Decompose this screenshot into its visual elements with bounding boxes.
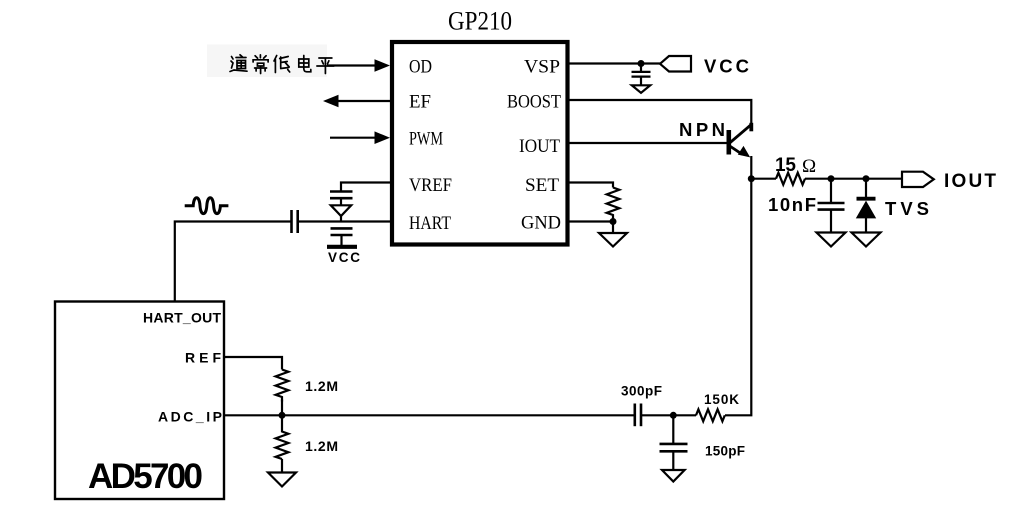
resistor R4 1.2M xyxy=(276,415,289,459)
svg-text:HART: HART xyxy=(409,213,451,234)
junction node R2/GND xyxy=(610,218,617,225)
label 1.2M (R4) xyxy=(305,438,338,454)
label TVS xyxy=(885,198,929,219)
junction node C2 xyxy=(828,175,835,182)
junction node ADC_IP xyxy=(279,412,286,419)
svg-text:EF: EF xyxy=(409,92,431,113)
svg-text:15: 15 xyxy=(775,155,796,176)
arrowhead out of EF xyxy=(323,95,339,108)
capacitor C4 (HART coupling) xyxy=(292,210,298,233)
wire PWM input xyxy=(330,137,376,139)
wire R5 up to emitter node xyxy=(725,179,751,416)
junction node VSP/C1 xyxy=(638,60,645,67)
wire IOUT pin to base xyxy=(567,142,728,144)
label Omega xyxy=(802,156,816,177)
wire EF output xyxy=(337,100,390,102)
wire GND pin xyxy=(567,220,613,222)
wire ADC_IP line xyxy=(224,414,635,416)
svg-text:VCC: VCC xyxy=(328,250,360,265)
wire VSP to VCC xyxy=(567,62,660,64)
wire HART line xyxy=(298,220,392,222)
label 300pF xyxy=(621,384,662,399)
resistor R1 15 ohm xyxy=(776,173,805,185)
wire R3 to ADC_IP node xyxy=(281,400,283,416)
wire R4 to ground xyxy=(281,459,283,473)
label 150K xyxy=(704,392,739,407)
ground (TVS) xyxy=(852,233,881,247)
wire C4 to HART_OUT xyxy=(175,222,292,302)
wire TVS top lead xyxy=(865,179,867,198)
resistor R3 1.2M xyxy=(276,370,289,402)
label 通常低电平 (hand-drawn glyphs) xyxy=(230,55,334,74)
svg-text:1.2M: 1.2M xyxy=(305,378,338,394)
label VCC (below C5) xyxy=(328,250,360,265)
svg-text:Ω: Ω xyxy=(802,156,816,177)
wire BOOST to collector xyxy=(567,100,751,124)
wire REF to R3 xyxy=(224,357,282,370)
HART signal squiggle xyxy=(185,198,229,214)
resistor R2 (SET) xyxy=(607,188,620,222)
VCC rail bar xyxy=(327,245,357,249)
ground (C7) xyxy=(662,470,685,482)
svg-text:150pF: 150pF xyxy=(705,444,745,459)
svg-text:REF: REF xyxy=(185,350,221,366)
svg-text:ADC_IP: ADC_IP xyxy=(158,409,222,425)
svg-text:IOUT: IOUT xyxy=(944,171,996,192)
IC U1 GP210 box xyxy=(392,42,568,245)
wire C1 top lead xyxy=(640,64,642,72)
ground (VSP cap) xyxy=(632,85,650,93)
svg-text:VSP: VSP xyxy=(524,57,560,78)
svg-text:PWM: PWM xyxy=(409,129,443,150)
wire C6 to node xyxy=(641,414,696,416)
net label IOUT xyxy=(944,171,996,192)
svg-text:300pF: 300pF xyxy=(621,384,662,399)
capacitor C2 10nF xyxy=(818,203,845,233)
svg-text:HART_OUT: HART_OUT xyxy=(143,310,221,326)
wire emitter to R1 xyxy=(751,178,776,180)
IC U2 AD5700 box xyxy=(55,302,224,500)
wire R1 to IOUT flag xyxy=(805,178,902,180)
faint highlight box behind label xyxy=(207,45,327,78)
label NPN xyxy=(679,119,725,140)
svg-text:VREF: VREF xyxy=(409,175,452,196)
label 15 xyxy=(775,155,796,176)
ground (VREF cap, arrow style) xyxy=(331,198,351,221)
junction node emitter/out xyxy=(748,175,755,182)
wire C2 top lead xyxy=(830,179,832,203)
arrowhead into PWM xyxy=(375,131,391,144)
label 1.2M (R3) xyxy=(305,378,338,394)
wire OD input xyxy=(323,64,376,66)
arrowhead into OD xyxy=(375,59,391,72)
svg-text:AD5700: AD5700 xyxy=(88,457,203,496)
junction node TVS xyxy=(863,175,870,182)
IC U1 name label GP210 xyxy=(448,7,512,36)
wire SET to R2 xyxy=(567,183,613,188)
terminal flag IOUT xyxy=(902,172,934,187)
ground (GND pin) xyxy=(599,233,627,247)
label 150pF xyxy=(705,444,745,459)
svg-text:GND: GND xyxy=(521,213,561,234)
capacitor C5 (HART to VCC) xyxy=(331,228,353,245)
capacitor C6 300pF xyxy=(635,404,641,427)
transistor Q1 NPN xyxy=(729,123,752,179)
junction node C6/R5/C7 xyxy=(670,412,677,419)
svg-text:GP210: GP210 xyxy=(448,7,512,36)
svg-text:IOUT: IOUT xyxy=(519,136,560,157)
capacitor C1 (VSP decoupling) xyxy=(632,72,651,85)
svg-text:VCC: VCC xyxy=(704,56,749,77)
svg-text:BOOST: BOOST xyxy=(507,92,561,113)
svg-text:TVS: TVS xyxy=(885,198,929,219)
wire VREF to C3 xyxy=(341,183,392,192)
ground (R4) xyxy=(268,473,296,487)
label 10nF xyxy=(768,194,816,215)
diode D1 TVS xyxy=(856,199,876,233)
svg-text:OD: OD xyxy=(409,57,432,78)
svg-text:NPN: NPN xyxy=(679,119,725,140)
svg-text:10nF: 10nF xyxy=(768,194,816,215)
capacitor C7 150pF xyxy=(660,415,688,470)
terminal flag VCC xyxy=(660,56,691,72)
net label VCC xyxy=(704,56,749,77)
resistor R5 150K xyxy=(696,409,725,421)
capacitor C3 (VREF) xyxy=(330,192,353,199)
svg-text:SET: SET xyxy=(525,175,559,196)
svg-text:150K: 150K xyxy=(704,392,739,407)
wire to ground xyxy=(612,222,614,234)
svg-text:1.2M: 1.2M xyxy=(305,438,338,454)
ground (C2) xyxy=(817,233,846,247)
